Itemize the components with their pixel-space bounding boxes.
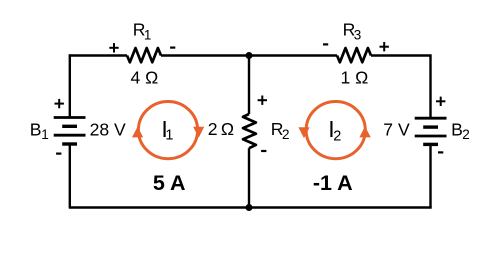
label R1 — [133, 20, 152, 43]
svg-text:1: 1 — [165, 127, 173, 143]
R2 polarity + — [258, 96, 267, 105]
wire bottom — [69, 206, 432, 208]
battery B1 — [54, 118, 86, 145]
svg-text:4 Ω: 4 Ω — [130, 68, 158, 88]
R3 polarity - — [323, 43, 328, 45]
wire top-middle (R1 to R3) — [161, 54, 337, 56]
R2 polarity - — [261, 150, 266, 152]
R3 polarity + — [380, 42, 389, 51]
R1 polarity - — [170, 46, 175, 48]
svg-text:2 Ω: 2 Ω — [208, 119, 234, 139]
node bottom junction — [246, 204, 253, 211]
label I1 — [161, 116, 173, 143]
svg-text:2: 2 — [333, 129, 341, 145]
svg-text:1: 1 — [41, 127, 49, 142]
I1 arrowhead left (up) — [132, 127, 143, 138]
svg-text:1 Ω: 1 Ω — [340, 68, 368, 88]
svg-text:B: B — [30, 119, 42, 139]
I2 arrowhead left (down) — [298, 127, 309, 138]
label I2 — [328, 116, 341, 145]
B2 polarity + — [436, 97, 445, 106]
label B2 — [451, 119, 470, 142]
B1 polarity - — [56, 153, 61, 155]
svg-text:7 V: 7 V — [383, 119, 410, 139]
label B1 — [30, 119, 49, 142]
label R2 — [271, 119, 290, 142]
B2 polarity - — [438, 151, 443, 153]
R1 polarity + — [109, 43, 118, 52]
resistor R2 — [243, 114, 256, 148]
resistor R3 — [337, 48, 371, 62]
wire top-right (R3 to B2) — [371, 56, 431, 118]
svg-text:-1 A: -1 A — [313, 171, 353, 195]
svg-text:2: 2 — [462, 127, 470, 142]
mesh current loop I1 (clockwise) — [138, 102, 197, 159]
svg-text:3: 3 — [354, 27, 362, 42]
wire middle (top node to R2) — [248, 56, 250, 115]
mesh current loop I2 (counter-clockwise) — [306, 102, 365, 159]
wire right (B2 to bottom) — [429, 144, 431, 207]
battery B2 — [415, 118, 447, 144]
svg-text:5 A: 5 A — [153, 171, 186, 195]
svg-text:B: B — [451, 119, 463, 139]
wire left (top of B1) — [69, 54, 71, 117]
resistor R1 — [127, 48, 161, 62]
wire middle (R2 to bottom node) — [248, 148, 250, 207]
node top junction — [246, 52, 253, 59]
I2 arrowhead right (up) — [359, 126, 370, 137]
B1 polarity + — [55, 99, 64, 108]
svg-text:1: 1 — [144, 27, 152, 42]
wire left (B1 to bottom) — [69, 144, 71, 208]
label R3 — [343, 20, 362, 43]
I1 arrowhead right (down) — [193, 127, 204, 138]
svg-text:2: 2 — [282, 127, 290, 142]
svg-text:28 V: 28 V — [90, 119, 126, 139]
wire top-left (B1 to R1) — [69, 54, 127, 56]
